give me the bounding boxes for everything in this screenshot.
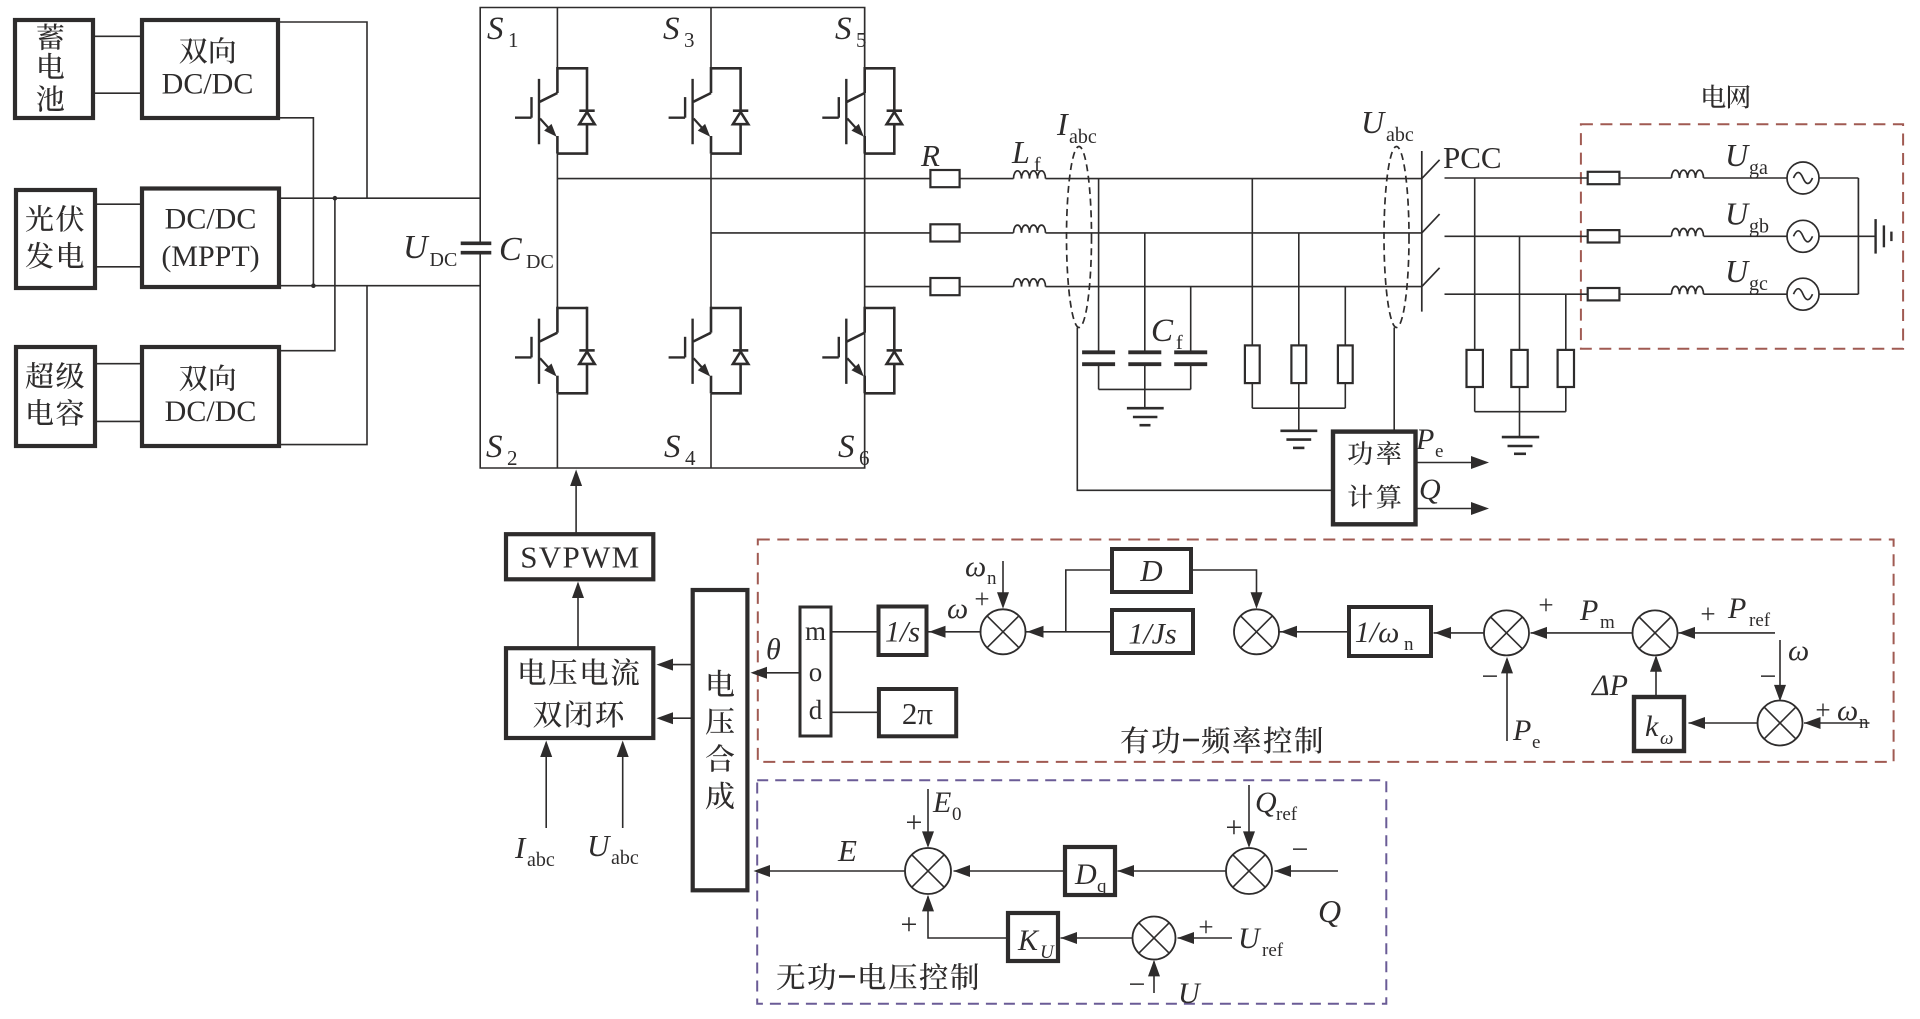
wire leg 3 upper: [864, 8, 866, 69]
ground symbol (local load): [1280, 429, 1317, 432]
wire Cf A to neutral bus: [1098, 366, 1100, 389]
wire battery DC/DC bottom output to DC- rail: [278, 118, 313, 286]
wire phase C to Cf: [1190, 287, 1192, 351]
arrow delta P to P_ref junction: [1655, 657, 1657, 697]
svg-text:f: f: [1034, 154, 1041, 176]
wire to grid source phase A: [1704, 177, 1788, 179]
wire phase A to load resistor: [1251, 179, 1253, 346]
svg-text:q: q: [1097, 876, 1107, 897]
PCC load resistor A: [1467, 350, 1483, 387]
svg-text:ω: ω: [947, 592, 968, 625]
wire load resistor B to bus: [1298, 383, 1300, 408]
wire leg 3 middle: [864, 154, 866, 308]
grid inductor phase A: [1672, 170, 1704, 178]
svg-text:U: U: [1361, 104, 1386, 140]
svg-text:4: 4: [685, 446, 696, 470]
arrow voltage synthesis to loop lower: [659, 717, 693, 719]
svg-text:I: I: [1056, 106, 1069, 142]
wire PCC load resistor C to bus: [1565, 387, 1567, 412]
svg-text:1/s: 1/s: [885, 616, 920, 649]
svg-text:+: +: [1538, 590, 1553, 620]
svg-text:I: I: [514, 830, 527, 865]
svg-text:D: D: [1074, 858, 1097, 891]
svg-text:U: U: [403, 229, 430, 266]
inductor Lf phase B: [1014, 225, 1046, 233]
AC source U_gb: [1787, 220, 1819, 252]
wire PCC phase C to load resistor: [1565, 294, 1567, 350]
wire PCC load neutral to ground: [1519, 412, 1521, 437]
svg-text:2π: 2π: [902, 696, 934, 731]
svg-text:PCC: PCC: [1443, 140, 1502, 175]
svg-text:+: +: [974, 584, 989, 614]
block 1/s: [879, 607, 927, 656]
svg-text:n: n: [1859, 712, 1869, 733]
wire DC+ rail: [279, 197, 480, 199]
svg-text:P: P: [1727, 592, 1746, 625]
summing junction (omega_n +): [981, 609, 1026, 654]
svg-text:2: 2: [507, 446, 518, 470]
svg-text:DC/DC: DC/DC: [162, 68, 254, 101]
wire mod to 2pi: [831, 711, 879, 713]
svg-text:S: S: [663, 11, 680, 47]
wire leg 3 lower: [864, 393, 866, 468]
IGBT S2: [515, 307, 595, 395]
wire PCC load resistor A to bus: [1474, 387, 1476, 412]
load resistor A: [1245, 345, 1260, 383]
svg-text:E: E: [932, 786, 951, 819]
wire source to grid neutral bus phase A: [1819, 177, 1858, 179]
label 有功-频率控制: [1121, 726, 1148, 753]
svg-text:e: e: [1532, 732, 1540, 753]
wire PCC phase A to load resistor: [1474, 178, 1476, 350]
svg-text:abc: abc: [611, 847, 639, 869]
svg-text:m: m: [1600, 612, 1615, 633]
wire leg 1 lower: [556, 393, 558, 468]
resistor R phase C: [930, 278, 959, 295]
voltage current double loop block 电压电流双闭环: [506, 648, 653, 738]
svg-text:1/ω: 1/ω: [1355, 616, 1400, 649]
resistor R phase A: [930, 170, 959, 187]
wire R to Lf phase C: [960, 286, 1014, 288]
input omega_n arrow (droop right): [1804, 722, 1870, 724]
arrow 1/omega_n to summing junction: [1278, 631, 1349, 633]
switch blade phase A: [1422, 160, 1440, 179]
svg-text:1: 1: [508, 28, 519, 52]
wire leg 1 upper: [556, 8, 558, 69]
SVPWM block: [506, 534, 653, 579]
wire battery to DC/DC: [93, 35, 142, 37]
svg-text:P: P: [1579, 594, 1598, 627]
capacitor Cf B: [1128, 350, 1161, 354]
bidirectional DC/DC converter (supercap): [142, 347, 279, 446]
arrow summing to k_omega: [1689, 722, 1759, 724]
DC/DC MPPT converter: [142, 189, 279, 288]
svg-text:+: +: [1815, 695, 1830, 725]
wire R to Lf phase B: [960, 232, 1014, 234]
voltage measurement ellipse U_abc: [1384, 147, 1409, 328]
svg-text:C: C: [499, 231, 522, 268]
input arrow I_abc: [545, 743, 547, 829]
svg-text:6: 6: [859, 446, 870, 470]
wire Lf to PCC phase C: [1046, 286, 1422, 288]
wire supercap to DC/DC: [95, 363, 142, 365]
input Q_ref arrow: [1248, 785, 1250, 846]
wire load resistor C to bus: [1344, 383, 1346, 408]
svg-text:abc: abc: [1069, 126, 1097, 148]
AC source U_gc: [1787, 278, 1819, 310]
Cf neutral bus wire: [1099, 388, 1191, 390]
input E_0 arrow: [927, 789, 929, 846]
wire D output to summing junction: [1191, 570, 1257, 606]
supercapacitor block 超级电容: [16, 347, 95, 446]
svg-text:L: L: [1011, 134, 1030, 170]
IGBT S3: [669, 67, 749, 155]
arrow K_U path to E junction: [928, 897, 1008, 939]
wire leg 2 middle: [710, 154, 712, 308]
summing junction (P_m - P_e): [1484, 610, 1529, 655]
svg-text:o: o: [809, 657, 823, 687]
junction dot on DC- rail: [311, 283, 316, 288]
wire leg 1 middle: [556, 154, 558, 308]
svg-text:ω: ω: [1660, 728, 1673, 749]
wire Cf C to neutral bus: [1190, 366, 1192, 389]
output P_e wire: [1416, 462, 1473, 464]
svg-text:+: +: [1198, 912, 1213, 942]
arrow 1/Js output to summing junction: [1025, 631, 1113, 633]
input Q wire: [1275, 870, 1339, 872]
active power control dashed box 有功-频率控制: [758, 540, 1894, 762]
input P_e arrow: [1506, 659, 1508, 741]
input P_ref arrow: [1679, 632, 1776, 634]
svg-text:DC/DC: DC/DC: [165, 203, 257, 236]
wire PCC to grid phase C: [1445, 293, 1588, 295]
wire PCC to grid phase B: [1445, 235, 1588, 237]
wire source to grid neutral bus phase C: [1819, 293, 1858, 295]
grid boundary dashed box 电网: [1581, 124, 1903, 349]
PCC bus bar: [1421, 151, 1423, 312]
svg-text:P: P: [1512, 714, 1531, 747]
PCC load neutral bus wire: [1475, 411, 1566, 413]
wire to grid source phase C: [1704, 293, 1788, 295]
IGBT S6: [822, 307, 902, 395]
summing junction (P_ref + delta P): [1633, 610, 1678, 655]
wire Lf to PCC phase A: [1046, 178, 1422, 180]
block k_omega: [1634, 697, 1684, 751]
wire supercap DC/DC bottom output to DC- rail: [279, 286, 367, 445]
wire PCC phase B to load resistor: [1519, 236, 1521, 350]
svg-text:S: S: [838, 429, 855, 465]
wire source to grid neutral bus phase B: [1819, 235, 1858, 237]
svg-text:U: U: [1725, 195, 1750, 231]
svg-text:Q: Q: [1255, 786, 1277, 819]
svg-text:D: D: [1139, 553, 1162, 588]
input U arrow: [1153, 962, 1155, 994]
svg-text:S: S: [835, 11, 852, 47]
svg-text:1/Js: 1/Js: [1128, 618, 1176, 651]
reactive power control dashed box 无功-电压控制: [757, 780, 1386, 1004]
svg-text:K: K: [1017, 924, 1040, 957]
load resistor C: [1338, 345, 1353, 383]
inductor Lf phase A: [1014, 171, 1046, 179]
load resistor B: [1291, 345, 1306, 383]
input arrow U_abc: [622, 743, 624, 829]
svg-text:U: U: [1178, 977, 1202, 1010]
wire to grid inductor phase C: [1619, 293, 1671, 295]
IGBT S5: [822, 67, 902, 155]
svg-text:gc: gc: [1749, 273, 1768, 295]
wire leg 2 upper: [710, 8, 712, 69]
ground symbol (grid, rotated): [1874, 219, 1876, 254]
grid resistor phase B: [1588, 230, 1620, 242]
input omega arrow (droop): [1779, 640, 1781, 699]
summing junction (D + 1/omega_n): [1234, 609, 1279, 654]
svg-text:+: +: [906, 806, 923, 839]
load neutral bus wire: [1252, 407, 1345, 409]
label 无功-电压控制: [777, 963, 804, 990]
wire battery DC/DC top output to DC+ rail: [278, 22, 367, 198]
wire phase A to Cf: [1098, 179, 1100, 351]
block D: [1112, 549, 1191, 592]
wire PCC to grid phase A: [1445, 177, 1588, 179]
svg-text:(MPPT): (MPPT): [161, 240, 259, 273]
svg-text:ω: ω: [1788, 634, 1809, 667]
svg-text:d: d: [809, 695, 823, 725]
wire neutral bus to grid ground: [1858, 235, 1875, 237]
svg-text:k: k: [1645, 710, 1659, 743]
svg-text:ω: ω: [1837, 694, 1858, 727]
svg-text:f: f: [1176, 332, 1183, 354]
svg-text:U: U: [1725, 137, 1750, 173]
arrow P_m from ref junction: [1531, 632, 1634, 634]
svg-text:+: +: [901, 908, 918, 941]
wire PCC load resistor B to bus: [1519, 387, 1521, 412]
wire phase B to load resistor: [1298, 233, 1300, 346]
svg-text:e: e: [1435, 441, 1443, 462]
svg-text:Q: Q: [1419, 473, 1441, 506]
input omega_n arrow: [1002, 561, 1004, 607]
svg-text:U: U: [1725, 253, 1750, 289]
wire load resistor A to bus: [1251, 383, 1253, 408]
mod block: [800, 607, 831, 736]
arrow voltage synthesis to loop upper: [659, 664, 693, 666]
arrow U junction to K_U: [1061, 937, 1134, 939]
inverter bridge outline: [480, 8, 865, 469]
svg-text:S: S: [487, 11, 504, 47]
wire mod to 1/s: [831, 631, 879, 633]
phase C output wire to resistor R: [865, 286, 931, 288]
wire to grid source phase B: [1704, 235, 1788, 237]
svg-text:−: −: [1292, 833, 1309, 866]
arrow voltage-current loop to SVPWM: [577, 584, 579, 649]
input U_ref arrow: [1178, 937, 1233, 939]
PCC load resistor B: [1511, 350, 1527, 387]
grid inductor phase B: [1672, 229, 1704, 237]
resistor R phase B: [930, 224, 959, 241]
power calculation block 功率计算: [1333, 432, 1416, 525]
switch blade phase B: [1422, 214, 1440, 233]
svg-text:abc: abc: [527, 849, 555, 871]
svg-text:+: +: [1700, 599, 1715, 629]
svg-text:ω: ω: [965, 550, 986, 583]
phase A output wire to resistor R: [557, 178, 930, 180]
wire to grid inductor phase A: [1619, 177, 1671, 179]
AC source U_ga: [1787, 162, 1819, 194]
svg-text:θ: θ: [766, 633, 781, 666]
svg-text:SVPWM: SVPWM: [520, 540, 639, 575]
svg-text:DC: DC: [526, 251, 554, 273]
svg-text:DC: DC: [430, 249, 458, 271]
bidirectional DC/DC converter (battery): [142, 20, 278, 118]
label 电网: [1703, 84, 1725, 107]
wire Lf to PCC phase B: [1046, 232, 1422, 234]
phase B output wire to resistor R: [711, 232, 930, 234]
capacitor Cf A: [1082, 350, 1115, 354]
summing junction (omega_n - omega): [1758, 701, 1803, 746]
svg-text:P: P: [1415, 423, 1434, 456]
wire R to Lf phase A: [960, 178, 1014, 180]
grid inductor phase C: [1672, 286, 1704, 294]
capacitor C_DC: [461, 242, 492, 246]
svg-text:ref: ref: [1262, 940, 1284, 961]
summing junction (E): [905, 848, 951, 894]
svg-text:C: C: [1151, 313, 1174, 349]
svg-text:Q: Q: [1318, 893, 1341, 929]
svg-text:S: S: [664, 429, 681, 465]
svg-text:gb: gb: [1749, 215, 1769, 237]
svg-text:U: U: [1238, 922, 1262, 955]
capacitor Cf C: [1174, 350, 1207, 354]
current measurement ellipse I_abc: [1067, 147, 1092, 328]
arrow D_q to E junction: [954, 870, 1066, 872]
svg-text:+: +: [1226, 811, 1243, 844]
wire U_abc measurement to power calc: [1393, 328, 1395, 432]
arrow P summing to 1/omega_n: [1434, 632, 1485, 634]
grid resistor phase A: [1588, 172, 1620, 184]
svg-text:ga: ga: [1749, 157, 1768, 179]
IGBT S1: [515, 67, 595, 155]
voltage synthesis block 电压合成: [693, 590, 748, 890]
wire leg 2 lower: [710, 393, 712, 468]
svg-text:U: U: [1040, 942, 1055, 963]
wire phase C to load resistor: [1344, 287, 1346, 346]
wire supercap DC/DC top output to DC+ rail: [279, 198, 335, 351]
ground symbol (PCC load): [1502, 436, 1539, 439]
svg-text:5: 5: [856, 28, 867, 52]
PCC load resistor C: [1558, 350, 1574, 387]
block 1/omega_n: [1349, 607, 1431, 656]
svg-text:0: 0: [952, 804, 962, 825]
block K_U: [1008, 913, 1058, 961]
battery block 蓄电池: [15, 20, 93, 118]
svg-text:−: −: [1129, 968, 1146, 1001]
arrow Q junction to D_q: [1118, 870, 1227, 872]
svg-text:ref: ref: [1276, 804, 1298, 825]
wire load neutral to ground: [1298, 408, 1300, 431]
summing junction (U_ref - U): [1133, 917, 1176, 960]
svg-text:−: −: [1760, 660, 1777, 693]
arrow SVPWM to inverter: [575, 472, 577, 534]
svg-text:ΔP: ΔP: [1591, 669, 1628, 702]
wire neutral to ground: [1144, 389, 1146, 408]
block 2pi: [879, 689, 956, 736]
svg-text:3: 3: [684, 28, 695, 52]
PV block 光伏发电: [16, 190, 95, 288]
wire I_abc measurement to power calc: [1077, 328, 1333, 491]
svg-text:R: R: [920, 138, 940, 173]
wire feedback tap to D block: [1066, 570, 1112, 632]
output E arrow to voltage synthesis: [756, 870, 905, 872]
svg-text:n: n: [1404, 634, 1414, 655]
svg-text:ref: ref: [1749, 610, 1771, 631]
switch blade phase C: [1422, 268, 1440, 287]
grid neutral bus: [1857, 178, 1859, 294]
block D_q: [1065, 847, 1115, 895]
ground symbol (Cf): [1127, 407, 1164, 410]
wire PV to MPPT: [95, 203, 142, 205]
arrow theta to voltage synthesis: [753, 672, 800, 674]
wire Cf B to neutral bus: [1144, 366, 1146, 389]
wire to grid inductor phase B: [1619, 235, 1671, 237]
arrow omega into 1/s: [927, 631, 982, 633]
svg-text:DC/DC: DC/DC: [165, 395, 257, 428]
inductor Lf phase C: [1014, 279, 1046, 287]
junction dot on DC+ rail: [333, 196, 338, 201]
svg-text:abc: abc: [1386, 124, 1414, 146]
svg-text:U: U: [587, 828, 612, 863]
grid resistor phase C: [1588, 288, 1620, 300]
wire phase B to Cf: [1144, 233, 1146, 351]
wire DC- rail: [279, 285, 480, 287]
block 1/Js: [1112, 610, 1193, 653]
IGBT S4: [669, 307, 749, 395]
summing junction (Q_ref - Q): [1226, 848, 1272, 894]
svg-text:m: m: [805, 616, 826, 646]
svg-text:S: S: [486, 429, 503, 465]
svg-text:E: E: [837, 833, 857, 868]
svg-text:−: −: [1482, 660, 1499, 693]
output Q wire: [1416, 508, 1473, 510]
